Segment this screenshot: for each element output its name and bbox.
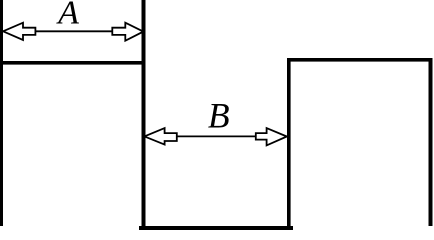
- wire right wall vertical: [429, 58, 433, 226]
- svg-text:A: A: [56, 0, 79, 32]
- svg-text:B: B: [208, 95, 230, 135]
- wire right top horizontal: [287, 58, 433, 62]
- wire center wall vertical: [142, 0, 146, 230]
- wire left floor horizontal: [0, 61, 146, 65]
- wire right-middle wall vertical: [287, 58, 291, 230]
- dimension arrow A: [3, 23, 143, 41]
- wire left wall vertical: [0, 0, 3, 226]
- wire bottom floor horizontal: [139, 226, 293, 230]
- dimension arrow B: [144, 128, 286, 145]
